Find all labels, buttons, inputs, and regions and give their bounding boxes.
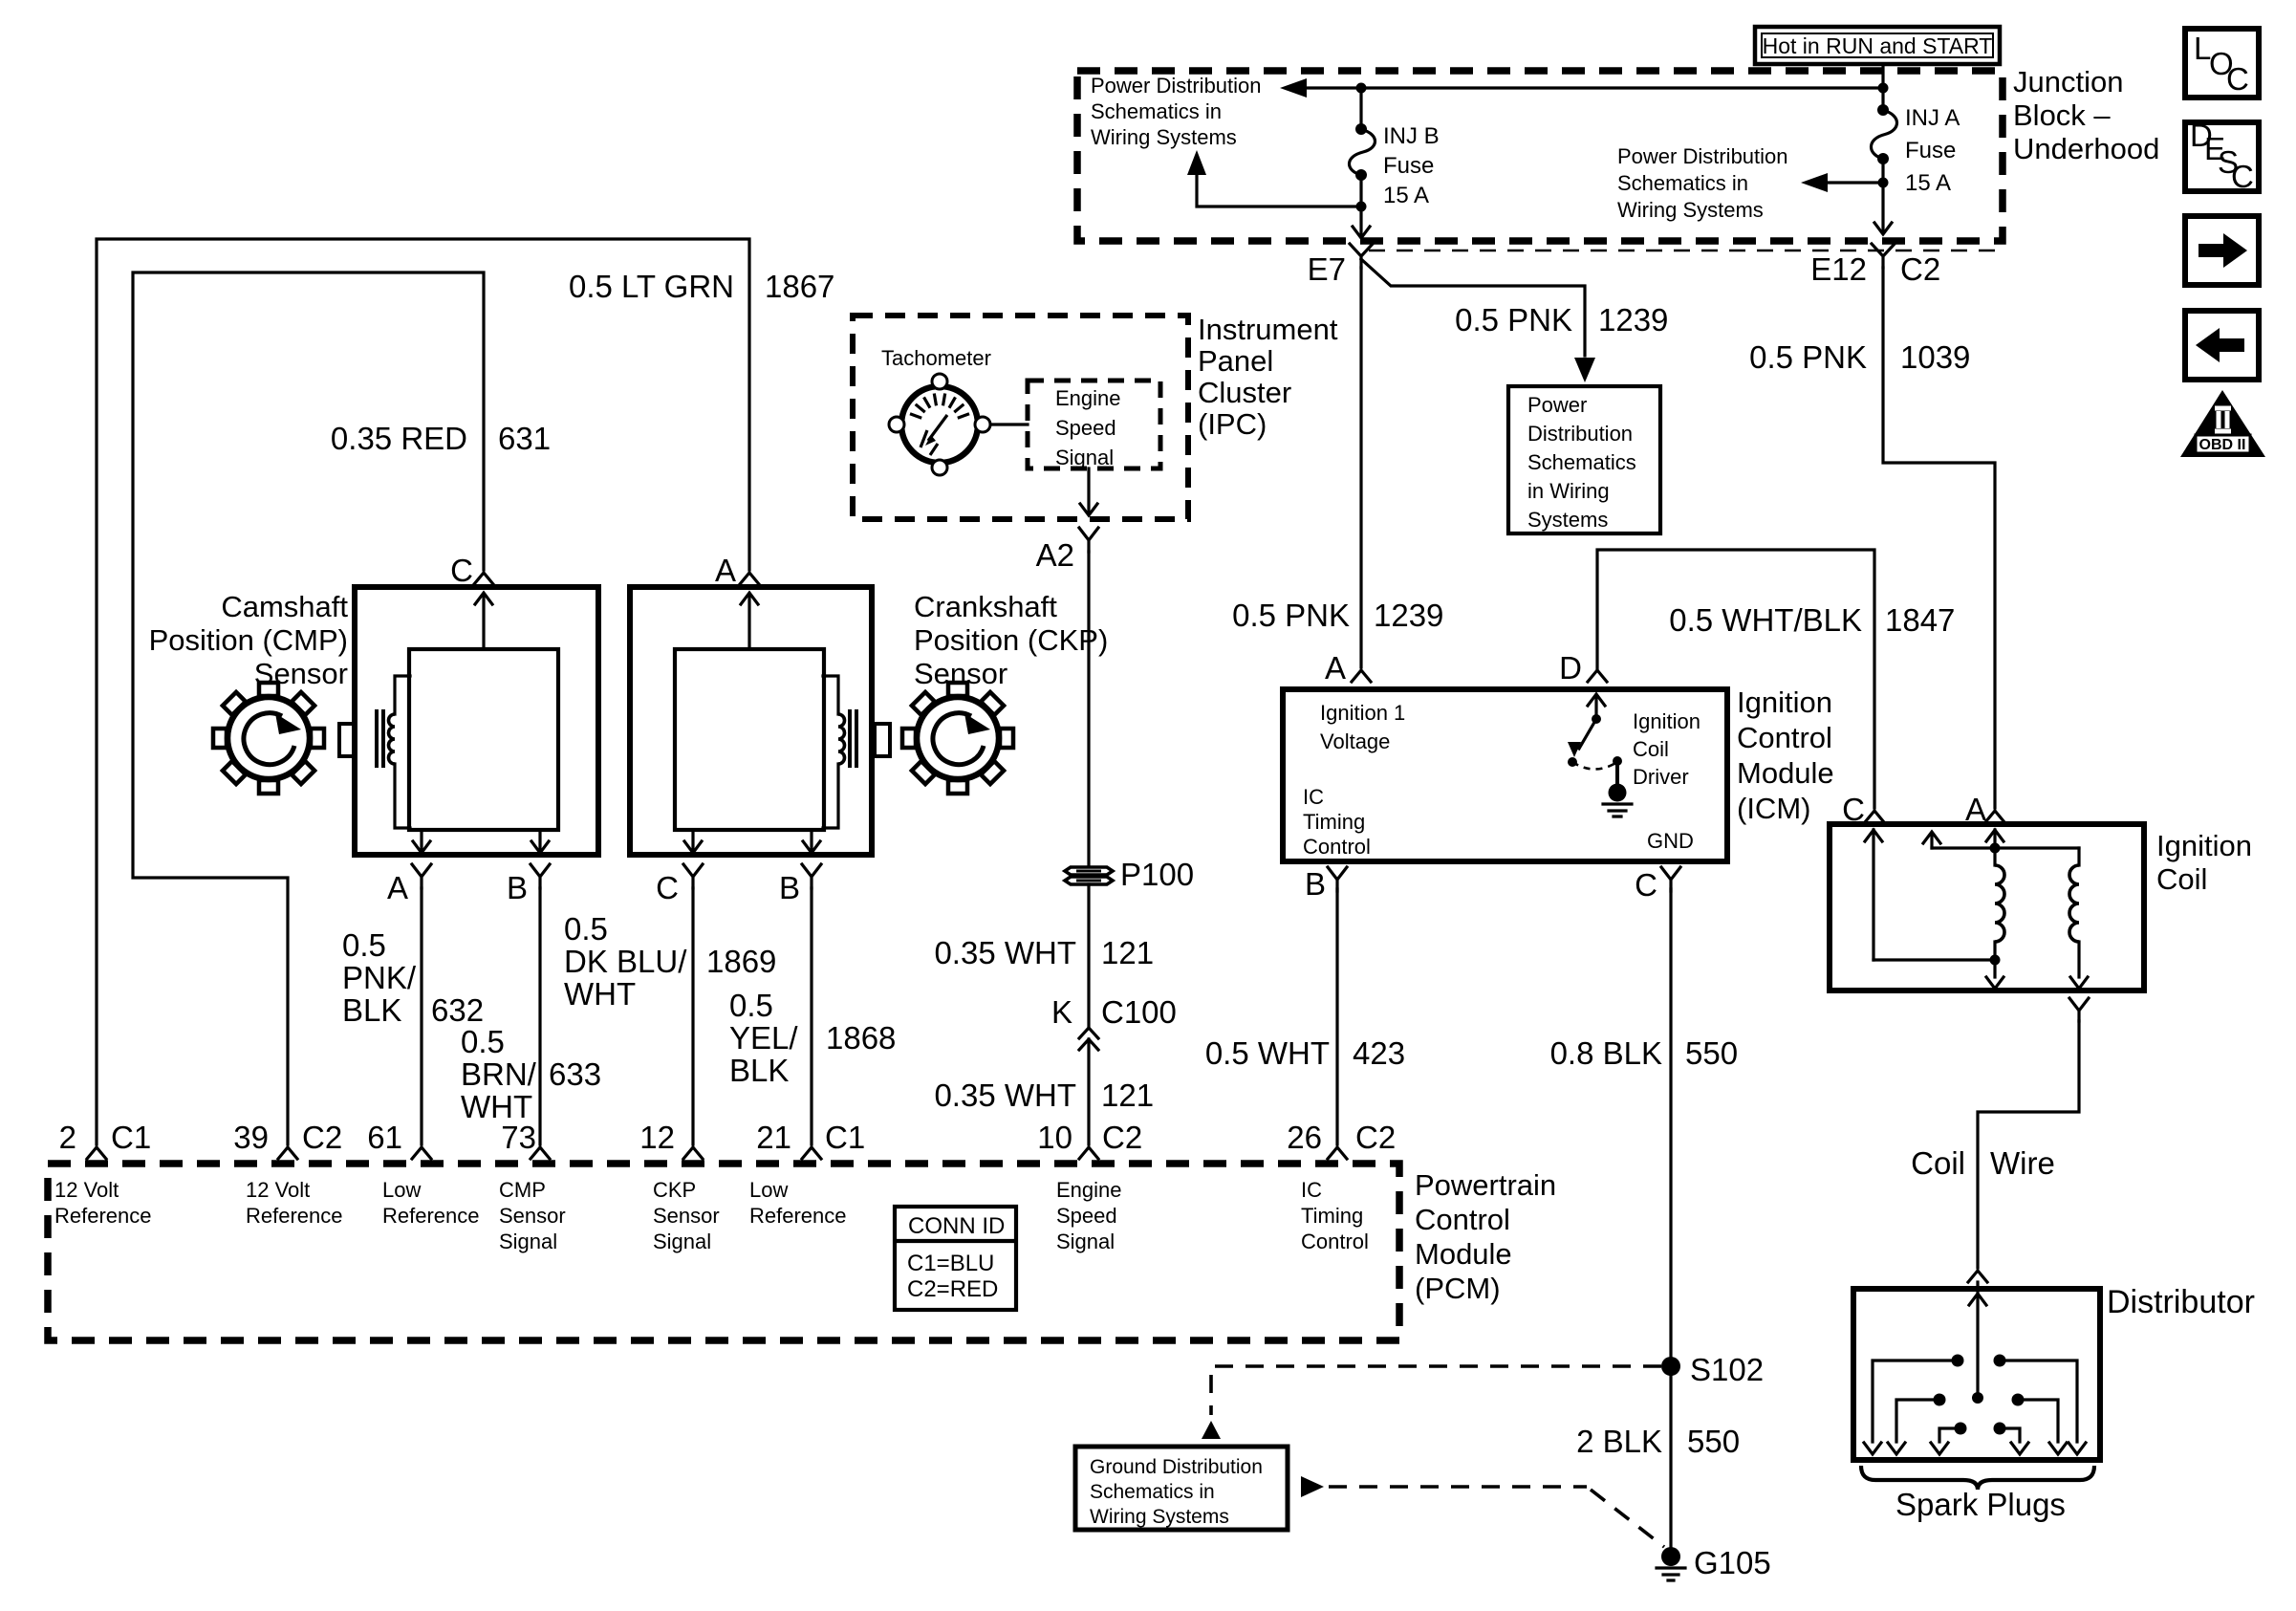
arrow from ESS box down <box>1087 468 1090 512</box>
wire 121 segment P100-C100 <box>1087 884 1090 1027</box>
coil secondary output connector <box>2069 998 2089 1021</box>
PCM pin 39 C2 <box>278 1147 297 1159</box>
ignition coil pin A connector <box>1985 811 2004 822</box>
svg-text:CONN ID: CONN ID <box>908 1213 1005 1239</box>
svg-text:A: A <box>1325 650 1346 686</box>
ICM internal ground <box>1615 761 1619 784</box>
svg-text:in Wiring: in Wiring <box>1527 479 1610 503</box>
svg-text:Power: Power <box>1527 393 1587 417</box>
svg-text:Reference: Reference <box>246 1204 343 1228</box>
PCM pin 2 C1 <box>87 1147 106 1159</box>
svg-text:Wiring Systems: Wiring Systems <box>1091 125 1237 149</box>
svg-text:121: 121 <box>1101 935 1154 970</box>
connector E7 <box>1350 244 1373 268</box>
fuse INJ B 15A <box>1359 88 1362 129</box>
svg-text:423: 423 <box>1353 1035 1405 1071</box>
svg-text:C: C <box>1635 867 1657 903</box>
svg-text:12 Volt: 12 Volt <box>246 1178 310 1202</box>
connector A2 <box>1079 528 1098 552</box>
ICM pin B connector <box>1328 867 1347 891</box>
node below fuse B <box>1356 202 1367 212</box>
svg-text:C2: C2 <box>1102 1120 1142 1155</box>
junction block J1 dashed box <box>1077 71 2003 241</box>
svg-text:550: 550 <box>1687 1424 1740 1459</box>
node below fuse A <box>1878 178 1889 188</box>
svg-text:1867: 1867 <box>765 269 834 304</box>
wire tach to ESS box <box>991 423 1028 425</box>
wire 1847: ICM pin D to coil pin C <box>1597 550 1874 808</box>
power distribution schematics box (solid) <box>1508 386 1660 533</box>
icon LOC <box>2185 29 2259 98</box>
svg-text:B: B <box>507 870 528 905</box>
svg-text:Schematics in: Schematics in <box>1617 171 1748 195</box>
wire 423: ICM B to PCM 26 <box>1335 889 1338 1144</box>
svg-text:CMP: CMP <box>499 1178 546 1202</box>
svg-text:0.5 PNK: 0.5 PNK <box>1455 302 1572 337</box>
svg-text:1039: 1039 <box>1900 339 1970 375</box>
svg-text:Control: Control <box>1737 721 1832 754</box>
svg-text:1847: 1847 <box>1885 602 1955 638</box>
svg-text:0.5: 0.5 <box>729 988 773 1023</box>
svg-text:Cluster: Cluster <box>1198 376 1291 409</box>
tachometer gauge <box>889 374 990 475</box>
connector above distributor <box>1968 1271 1987 1282</box>
svg-text:Panel: Panel <box>1198 344 1273 378</box>
svg-text:A: A <box>715 553 736 588</box>
CMP gear icon <box>213 683 324 794</box>
svg-text:12: 12 <box>639 1120 675 1155</box>
wire 1868 (0.5 YEL/BLK) <box>810 888 812 1144</box>
svg-text:C1: C1 <box>111 1120 151 1155</box>
svg-text:15 A: 15 A <box>1905 170 1951 196</box>
connector row dashed line C2 <box>1369 250 2001 252</box>
CKP sensor outer box <box>630 587 872 855</box>
svg-text:Wire: Wire <box>1990 1145 2055 1181</box>
svg-text:Wiring Systems: Wiring Systems <box>1617 198 1764 222</box>
svg-text:61: 61 <box>367 1120 402 1155</box>
svg-text:Hot in RUN and START: Hot in RUN and START <box>1763 33 1993 58</box>
wire 1867 (0.5 LT GRN): PCM pin2 - top - CKP pin A <box>97 239 749 1144</box>
PCM pin 10 C2 <box>1079 1147 1098 1159</box>
powertrain control module dashed box <box>48 1164 1399 1340</box>
CMP pickup coil <box>395 676 410 828</box>
svg-text:A2: A2 <box>1036 537 1074 573</box>
svg-text:Sensor: Sensor <box>499 1204 566 1228</box>
CMP pin C connector <box>474 573 493 584</box>
svg-text:E7: E7 <box>1308 251 1346 287</box>
svg-text:C2: C2 <box>1900 251 1940 287</box>
grommet P100 <box>1065 867 1113 875</box>
svg-text:Position (CMP): Position (CMP) <box>149 623 348 657</box>
PCM pin 26 C2 <box>1328 1147 1347 1159</box>
PCM pin 61 <box>412 1147 431 1159</box>
svg-text:S102: S102 <box>1690 1352 1764 1387</box>
svg-text:Block –: Block – <box>2013 98 2111 132</box>
svg-text:39: 39 <box>233 1120 269 1155</box>
ignition control module box <box>1283 689 1727 861</box>
svg-text:P100: P100 <box>1120 857 1194 892</box>
svg-text:GND: GND <box>1647 829 1694 853</box>
svg-text:0.35 RED: 0.35 RED <box>331 421 467 456</box>
PCM pin 12 <box>683 1147 703 1159</box>
svg-text:Distribution: Distribution <box>1527 422 1633 446</box>
svg-text:WHT: WHT <box>564 976 636 1012</box>
svg-text:E12: E12 <box>1810 251 1867 287</box>
connector C100 pin K (double chevron) <box>1079 1028 1098 1144</box>
svg-text:BLK: BLK <box>342 992 401 1028</box>
svg-text:C: C <box>2231 159 2254 194</box>
fuse INJ A 15A <box>1881 88 1884 110</box>
svg-text:A: A <box>387 870 408 905</box>
CMP internal arrows down <box>420 830 422 851</box>
svg-text:Control: Control <box>1301 1230 1369 1253</box>
CKP gear icon <box>902 683 1013 794</box>
primary winding <box>1993 848 1996 865</box>
ICM driver switch <box>1594 695 1597 719</box>
svg-text:Ignition 1: Ignition 1 <box>1320 701 1405 725</box>
icon back arrow <box>2185 311 2259 380</box>
CONN ID box <box>895 1207 1016 1310</box>
svg-text:2 BLK: 2 BLK <box>1576 1424 1662 1459</box>
spark plugs brace <box>1861 1466 2094 1490</box>
svg-text:0.5 LT GRN: 0.5 LT GRN <box>569 269 734 304</box>
connector E12 <box>1872 244 1895 268</box>
svg-text:121: 121 <box>1101 1078 1154 1113</box>
svg-text:Driver: Driver <box>1633 765 1689 789</box>
node at fuse B tap <box>1356 83 1367 94</box>
svg-text:26: 26 <box>1287 1120 1322 1155</box>
wire 1039 from E12 to ignition coil pin A <box>1883 268 1995 808</box>
icon OBD II <box>2180 390 2265 457</box>
svg-text:Wiring Systems: Wiring Systems <box>1090 1506 1229 1528</box>
svg-text:C1=BLU: C1=BLU <box>907 1251 994 1276</box>
svg-text:(IPC): (IPC) <box>1198 407 1267 441</box>
svg-text:YEL/: YEL/ <box>729 1020 798 1056</box>
svg-text:Fuse: Fuse <box>1905 138 1956 163</box>
svg-text:633: 633 <box>549 1056 601 1092</box>
primary return arrow down <box>1993 960 1996 977</box>
svg-text:C2: C2 <box>302 1120 342 1155</box>
arrow to ground distribution box <box>1202 1421 1221 1439</box>
svg-text:Camshaft: Camshaft <box>221 590 348 623</box>
svg-text:D: D <box>1559 650 1582 686</box>
svg-text:Sensor: Sensor <box>254 657 348 690</box>
coil internal: pin A arrow <box>1993 830 1996 848</box>
node bottom of primary <box>1990 955 2001 966</box>
svg-text:Module: Module <box>1737 756 1834 790</box>
svg-text:0.5 PNK: 0.5 PNK <box>1232 598 1350 633</box>
svg-text:Ignition: Ignition <box>1737 686 1832 719</box>
svg-text:CKP: CKP <box>653 1178 696 1202</box>
CKP pin C connector <box>683 864 703 888</box>
svg-text:Schematics in: Schematics in <box>1091 99 1222 123</box>
secondary winding <box>2077 848 2080 865</box>
CMP pickup coil core <box>377 711 383 766</box>
wire 632 (0.5 PNK/BLK) <box>420 888 422 1144</box>
branch diagonal to power dist box <box>1361 259 1585 356</box>
svg-text:1239: 1239 <box>1598 302 1668 337</box>
wire 633 (0.5 BRN/WHT) <box>538 888 541 1144</box>
svg-text:0.5 WHT/BLK: 0.5 WHT/BLK <box>1669 602 1862 638</box>
svg-text:Voltage: Voltage <box>1320 729 1390 753</box>
wire 1239 from E7 to ICM pin A <box>1359 268 1362 667</box>
svg-text:Ignition: Ignition <box>1633 709 1700 733</box>
ignition coil box <box>1830 824 2144 991</box>
svg-text:550: 550 <box>1685 1035 1738 1071</box>
svg-text:0.5: 0.5 <box>564 911 608 947</box>
CKP mount tab <box>875 724 890 756</box>
hot in run and start box <box>1755 27 2000 64</box>
CKP internal arrows down <box>691 830 694 851</box>
node at fuse A tap <box>1878 83 1889 94</box>
svg-text:B: B <box>1305 866 1326 902</box>
svg-text:1869: 1869 <box>706 944 776 979</box>
svg-text:Signal: Signal <box>653 1230 711 1253</box>
coil internal: horizontal to primary bottom <box>1874 958 1995 961</box>
svg-text:Low: Low <box>749 1178 788 1202</box>
icon DESC <box>2185 122 2259 191</box>
svg-text:0.35 WHT: 0.35 WHT <box>934 1078 1076 1113</box>
svg-text:Systems: Systems <box>1527 508 1608 532</box>
svg-text:C: C <box>656 870 679 905</box>
svg-text:PNK/: PNK/ <box>342 960 417 995</box>
coil internal: short arrow up <box>1930 834 1933 848</box>
CKP pin A connector <box>740 573 759 584</box>
svg-text:Engine: Engine <box>1056 1178 1122 1202</box>
svg-text:Spark Plugs: Spark Plugs <box>1895 1487 2066 1522</box>
engine speed signal dashed box <box>1028 381 1160 468</box>
svg-text:BLK: BLK <box>729 1053 789 1088</box>
icon forward arrow <box>2185 216 2259 285</box>
ground distribution schematics box <box>1075 1447 1288 1530</box>
svg-text:1868: 1868 <box>826 1020 896 1056</box>
svg-text:2: 2 <box>59 1120 76 1155</box>
svg-text:INJ A: INJ A <box>1905 105 1960 131</box>
svg-text:0.5 PNK: 0.5 PNK <box>1749 339 1867 375</box>
rotor contacts and plug wires <box>1952 1355 1964 1367</box>
ignition coil pin C connector <box>1865 811 1884 822</box>
splice S102 <box>1661 1357 1680 1376</box>
svg-text:Sensor: Sensor <box>914 657 1007 690</box>
svg-text:0.5: 0.5 <box>461 1024 505 1059</box>
coil internal: pin C arrow and wire <box>1872 830 1874 960</box>
svg-text:15 A: 15 A <box>1383 183 1429 208</box>
wire 1869 (0.5 DK BLU/WHT) <box>691 888 694 1144</box>
distributor box <box>1853 1289 2100 1460</box>
CMP pin B connector <box>531 864 550 888</box>
svg-text:OBD II: OBD II <box>2199 437 2246 453</box>
svg-text:C: C <box>2226 61 2249 97</box>
ICM pin D connector <box>1588 670 1607 682</box>
svg-text:Module: Module <box>1415 1237 1512 1271</box>
svg-text:Signal: Signal <box>499 1230 557 1253</box>
svg-text:Crankshaft: Crankshaft <box>914 590 1057 623</box>
svg-text:0.35 WHT: 0.35 WHT <box>934 935 1076 970</box>
fuse B output arrow <box>1359 207 1362 236</box>
CKP pickup coil core <box>850 711 856 766</box>
arrow to power distribution schematics (left) <box>1280 78 1307 98</box>
svg-text:DK BLU/: DK BLU/ <box>564 944 687 979</box>
svg-text:INJ B: INJ B <box>1383 123 1440 149</box>
svg-text:Sensor: Sensor <box>653 1204 720 1228</box>
svg-text:Power Distribution: Power Distribution <box>1091 74 1262 98</box>
svg-text:Control: Control <box>1415 1203 1510 1236</box>
CKP pin B connector <box>802 864 821 888</box>
svg-text:Tachometer: Tachometer <box>881 346 991 370</box>
svg-text:BRN/: BRN/ <box>461 1056 537 1092</box>
svg-text:Reference: Reference <box>382 1204 480 1228</box>
dashed wire to G105 <box>1329 1485 1587 1489</box>
svg-text:IC: IC <box>1303 785 1324 809</box>
CMP mount tab <box>339 724 355 756</box>
wire 121 segment IPC-P100 <box>1087 552 1090 865</box>
svg-text:Position (CKP): Position (CKP) <box>914 623 1108 657</box>
svg-text:1239: 1239 <box>1374 598 1443 633</box>
CMP internal arrow up <box>482 597 485 649</box>
svg-text:(PCM): (PCM) <box>1415 1272 1501 1305</box>
svg-text:Control: Control <box>1303 835 1371 859</box>
coil wire to distributor <box>1978 1021 2079 1268</box>
ground G105 <box>1661 1547 1680 1566</box>
svg-text:21: 21 <box>756 1120 791 1155</box>
svg-text:631: 631 <box>498 421 551 456</box>
svg-text:Reference: Reference <box>54 1204 152 1228</box>
svg-text:Signal: Signal <box>1056 1230 1115 1253</box>
svg-text:C2=RED: C2=RED <box>907 1276 998 1302</box>
CMP sensor outer box <box>355 587 598 855</box>
svg-text:Timing: Timing <box>1301 1204 1363 1228</box>
power bus wire y=92 <box>1300 86 1883 89</box>
svg-text:Distributor: Distributor <box>2107 1284 2255 1320</box>
CMP pin A connector <box>412 864 431 888</box>
svg-text:0.5 WHT: 0.5 WHT <box>1205 1035 1330 1071</box>
svg-text:Schematics: Schematics <box>1527 450 1636 474</box>
PCM pin 21 C1 <box>802 1147 821 1159</box>
svg-text:Schematics in: Schematics in <box>1090 1481 1215 1503</box>
ICM pin A connector <box>1352 670 1371 682</box>
arrow from ground dist box right <box>1301 1476 1324 1497</box>
wire 631 (0.35 RED): PCM pin39 - CMP pin C <box>133 272 484 1144</box>
svg-text:IC: IC <box>1301 1178 1322 1202</box>
svg-text:C2: C2 <box>1355 1120 1396 1155</box>
CKP inner box <box>675 649 824 830</box>
svg-text:Timing: Timing <box>1303 810 1365 834</box>
svg-text:Fuse: Fuse <box>1383 153 1434 179</box>
svg-text:Engine: Engine <box>1055 386 1121 410</box>
svg-text:Power Distribution: Power Distribution <box>1617 144 1788 168</box>
arrow into middle text <box>1826 181 1883 184</box>
svg-text:Low: Low <box>382 1178 421 1202</box>
svg-text:C1: C1 <box>825 1120 865 1155</box>
svg-text:10: 10 <box>1037 1120 1072 1155</box>
svg-text:C100: C100 <box>1101 994 1177 1030</box>
dashed branch from S102 <box>1211 1366 1661 1415</box>
svg-text:73: 73 <box>501 1120 536 1155</box>
svg-text:Reference: Reference <box>749 1204 847 1228</box>
svg-text:Ignition: Ignition <box>2156 829 2252 862</box>
wire from hot box to bus <box>1881 64 1884 88</box>
wire 550: ICM C to G105 <box>1669 889 1672 1547</box>
coil internal: top horizontal <box>1932 846 2079 849</box>
ICM pin C connector <box>1661 867 1680 891</box>
svg-text:Underhood: Underhood <box>2013 132 2159 165</box>
svg-text:B: B <box>779 870 800 905</box>
svg-text:Junction: Junction <box>2013 65 2123 98</box>
svg-text:632: 632 <box>431 992 484 1028</box>
svg-text:C: C <box>450 553 473 588</box>
svg-text:Ground Distribution: Ground Distribution <box>1090 1456 1263 1478</box>
svg-text:Powertrain: Powertrain <box>1415 1168 1556 1202</box>
PCM pin 73 <box>531 1147 550 1159</box>
svg-text:Coil: Coil <box>1911 1145 1965 1181</box>
svg-text:12 Volt: 12 Volt <box>54 1178 119 1202</box>
svg-text:(ICM): (ICM) <box>1737 792 1810 825</box>
svg-text:Instrument: Instrument <box>1198 313 1338 346</box>
CKP internal arrow up <box>747 597 750 649</box>
svg-text:0.8 BLK: 0.8 BLK <box>1550 1035 1662 1071</box>
CMP inner box <box>409 649 558 830</box>
CKP pickup coil <box>823 676 838 828</box>
svg-text:Speed: Speed <box>1055 416 1116 440</box>
node top of primary <box>1990 843 2001 854</box>
svg-text:G105: G105 <box>1694 1545 1771 1580</box>
svg-text:K: K <box>1051 994 1072 1030</box>
instrument panel cluster dashed box <box>853 316 1188 519</box>
svg-text:0.5: 0.5 <box>342 927 386 963</box>
svg-text:Speed: Speed <box>1056 1204 1117 1228</box>
branch wire to up-arrow <box>1197 176 1361 207</box>
svg-text:Signal: Signal <box>1055 446 1114 469</box>
svg-text:Coil: Coil <box>1633 737 1669 761</box>
distributor center electrode <box>1976 1293 1979 1392</box>
svg-text:Coil: Coil <box>2156 862 2207 896</box>
